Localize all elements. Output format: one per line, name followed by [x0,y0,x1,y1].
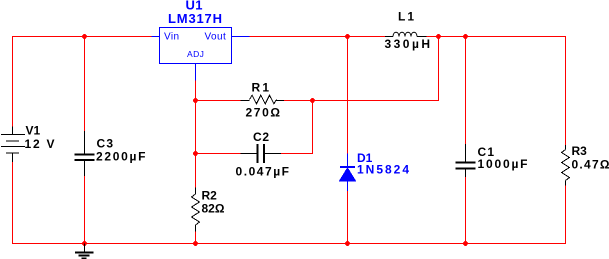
capacitor C1 [456,144,476,177]
svg-text:LM317H: LM317H [168,11,222,26]
svg-text:C2: C2 [253,130,269,144]
junction node D1 bottom [345,241,350,246]
junction node R1/C2 right [310,98,315,103]
svg-text:Vout: Vout [205,32,227,43]
svg-text:Vin: Vin [164,32,179,43]
svg-text:V1: V1 [26,124,41,138]
junction node C3 top [82,34,87,39]
capacitor C3 [75,131,95,176]
wire C2 right riser to R1 row [281,101,313,154]
wire C2 row left [196,153,241,155]
wire D1 branch top [347,37,349,154]
svg-text:12 V: 12 V [25,137,55,151]
op-amp U1 LM317H regulator box [152,28,250,81]
junction node C3 bottom [82,241,87,246]
wire C3 branch top [84,37,86,132]
ground [75,244,94,259]
diode D1 [340,154,356,192]
junction node C2 left on R2 branch [193,151,198,156]
wire top rail L1 to R3 top corner [427,37,566,146]
wire ADJ node down to R1 row and C2 row and R2 [195,81,197,188]
resistor R1 [241,95,285,104]
svg-text:R1: R1 [252,81,270,95]
inductor L1 [385,32,427,36]
junction node L1 out riser [436,34,441,39]
junction node C1 bottom [463,241,468,246]
wire R1 right to riser x438 up to top rail [284,37,439,101]
svg-text:1N5824: 1N5824 [357,163,409,177]
wire top rail left (V1 to U1 Vin) [13,37,152,127]
svg-text:R3: R3 [572,144,588,158]
resistor R3 [562,145,570,186]
resistor R2 [192,188,200,232]
wire bottom rail [13,162,566,244]
wire C1 branch top [465,37,467,145]
svg-text:82Ω: 82Ω [202,202,225,216]
wire C3 branch bottom [84,176,86,244]
junction node C1 top [463,34,468,39]
svg-text:2200µF: 2200µF [96,150,146,164]
wire R2 bottom to rail [195,232,197,244]
battery V1 [1,127,25,163]
svg-text:1000µF: 1000µF [478,157,528,171]
svg-text:C3: C3 [97,137,114,151]
svg-text:0.47Ω: 0.47Ω [572,158,609,172]
junction node D1 top [345,34,350,39]
wire R1 row (ADJ node to R1) [196,100,241,102]
wire top rail Vout to L1 [250,36,386,38]
svg-text:330µH: 330µH [385,37,431,51]
svg-text:0.047µF: 0.047µF [236,165,290,179]
svg-text:ADJ: ADJ [187,49,204,59]
capacitor C2 [241,144,282,163]
wire C1 branch bottom [465,177,467,244]
svg-text:270Ω: 270Ω [246,106,281,120]
junction node R2 bottom [193,241,198,246]
wire D1 branch bottom [347,191,349,244]
svg-text:R2: R2 [202,189,218,203]
junction node ADJ/R1/R2 [193,98,198,103]
svg-text:L1: L1 [398,10,414,24]
